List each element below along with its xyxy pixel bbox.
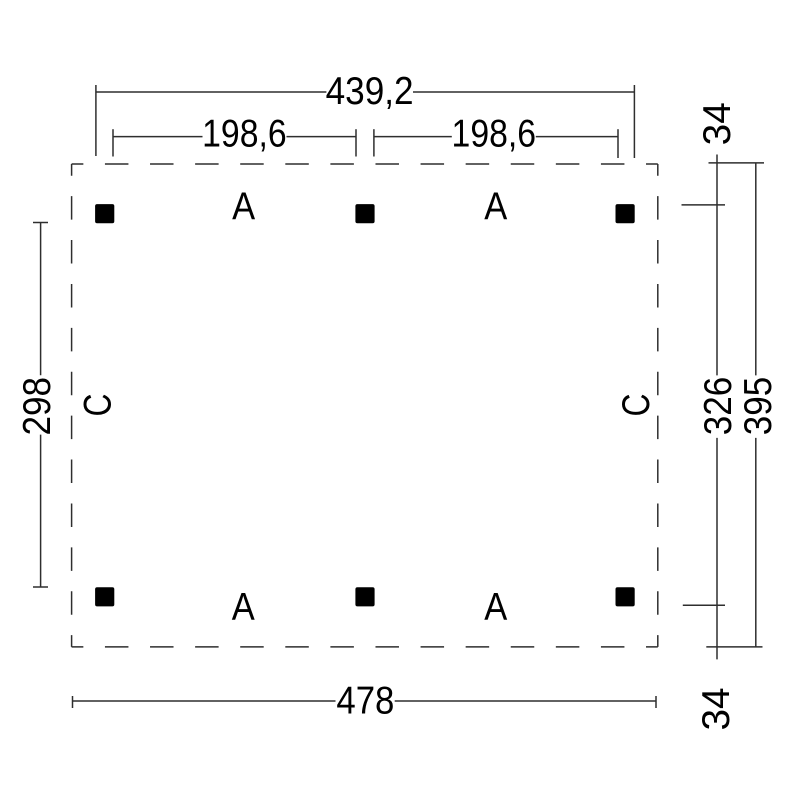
svg-text:198,6: 198,6 bbox=[452, 112, 537, 155]
svg-text:439,2: 439,2 bbox=[326, 70, 414, 113]
svg-text:298: 298 bbox=[16, 377, 59, 436]
svg-text:C: C bbox=[77, 394, 120, 417]
right dimensions: extension line at top post outer edge bbox=[682, 204, 726, 206]
svg-text:478: 478 bbox=[336, 680, 394, 723]
dimension 198,6 right: extension line at middle post bbox=[373, 129, 375, 156]
dimension 478: dimension line (broken for text) bbox=[73, 700, 657, 702]
dimension 298: top end tick bbox=[33, 222, 48, 224]
svg-text:A: A bbox=[484, 586, 507, 629]
right dimensions: extension line at roof bottom edge bbox=[706, 646, 762, 648]
dimension 298: bottom end tick bbox=[33, 586, 48, 588]
svg-text:326: 326 bbox=[697, 377, 740, 436]
dimension 439,2: dimension line (broken for text) bbox=[96, 91, 635, 93]
dimension 478: right end tick bbox=[655, 696, 657, 708]
dimension line for 34/326/34 (broken for text 326) bbox=[716, 155, 718, 660]
post bottom-middle bbox=[355, 587, 374, 606]
svg-text:A: A bbox=[232, 586, 255, 629]
right dimensions: extension line at bottom post outer edge bbox=[683, 604, 725, 606]
svg-text:395: 395 bbox=[737, 377, 780, 436]
dimension line for 395 (broken for text) bbox=[755, 163, 757, 647]
svg-text:A: A bbox=[484, 185, 507, 228]
svg-text:C: C bbox=[615, 394, 658, 417]
post bottom-right bbox=[616, 587, 635, 606]
dimension 439,2: left extension line bbox=[95, 85, 97, 156]
dimension 198,6 left: dimension line (broken for text) bbox=[113, 136, 356, 138]
dimension 198,6 left: extension line at left post bbox=[112, 129, 114, 156]
roof outline right edge (dashed) bbox=[657, 164, 659, 647]
right dimensions: extension line at roof top edge bbox=[709, 162, 765, 164]
svg-text:198,6: 198,6 bbox=[202, 112, 287, 155]
dimension 298: dimension line (broken for text) bbox=[40, 223, 42, 588]
dimension 198,6 right: dimension line (broken for text) bbox=[374, 136, 618, 138]
dimension 439,2: right extension line bbox=[633, 85, 635, 158]
svg-text:34: 34 bbox=[696, 102, 739, 145]
post top-right bbox=[616, 204, 635, 223]
svg-text:34: 34 bbox=[695, 687, 738, 730]
dimension 198,6 right: extension line at right post bbox=[617, 129, 619, 158]
roof outline top edge (dashed) bbox=[72, 163, 658, 165]
post top-left bbox=[95, 204, 114, 223]
roof outline bottom edge (dashed) bbox=[72, 646, 658, 648]
post bottom-left bbox=[95, 587, 114, 606]
dimension 478: left end tick bbox=[72, 696, 74, 708]
svg-text:A: A bbox=[232, 185, 255, 228]
roof outline left edge (dashed) bbox=[71, 164, 73, 647]
post top-middle bbox=[355, 204, 374, 223]
dimension 198,6 left: extension line at middle post bbox=[355, 129, 357, 156]
